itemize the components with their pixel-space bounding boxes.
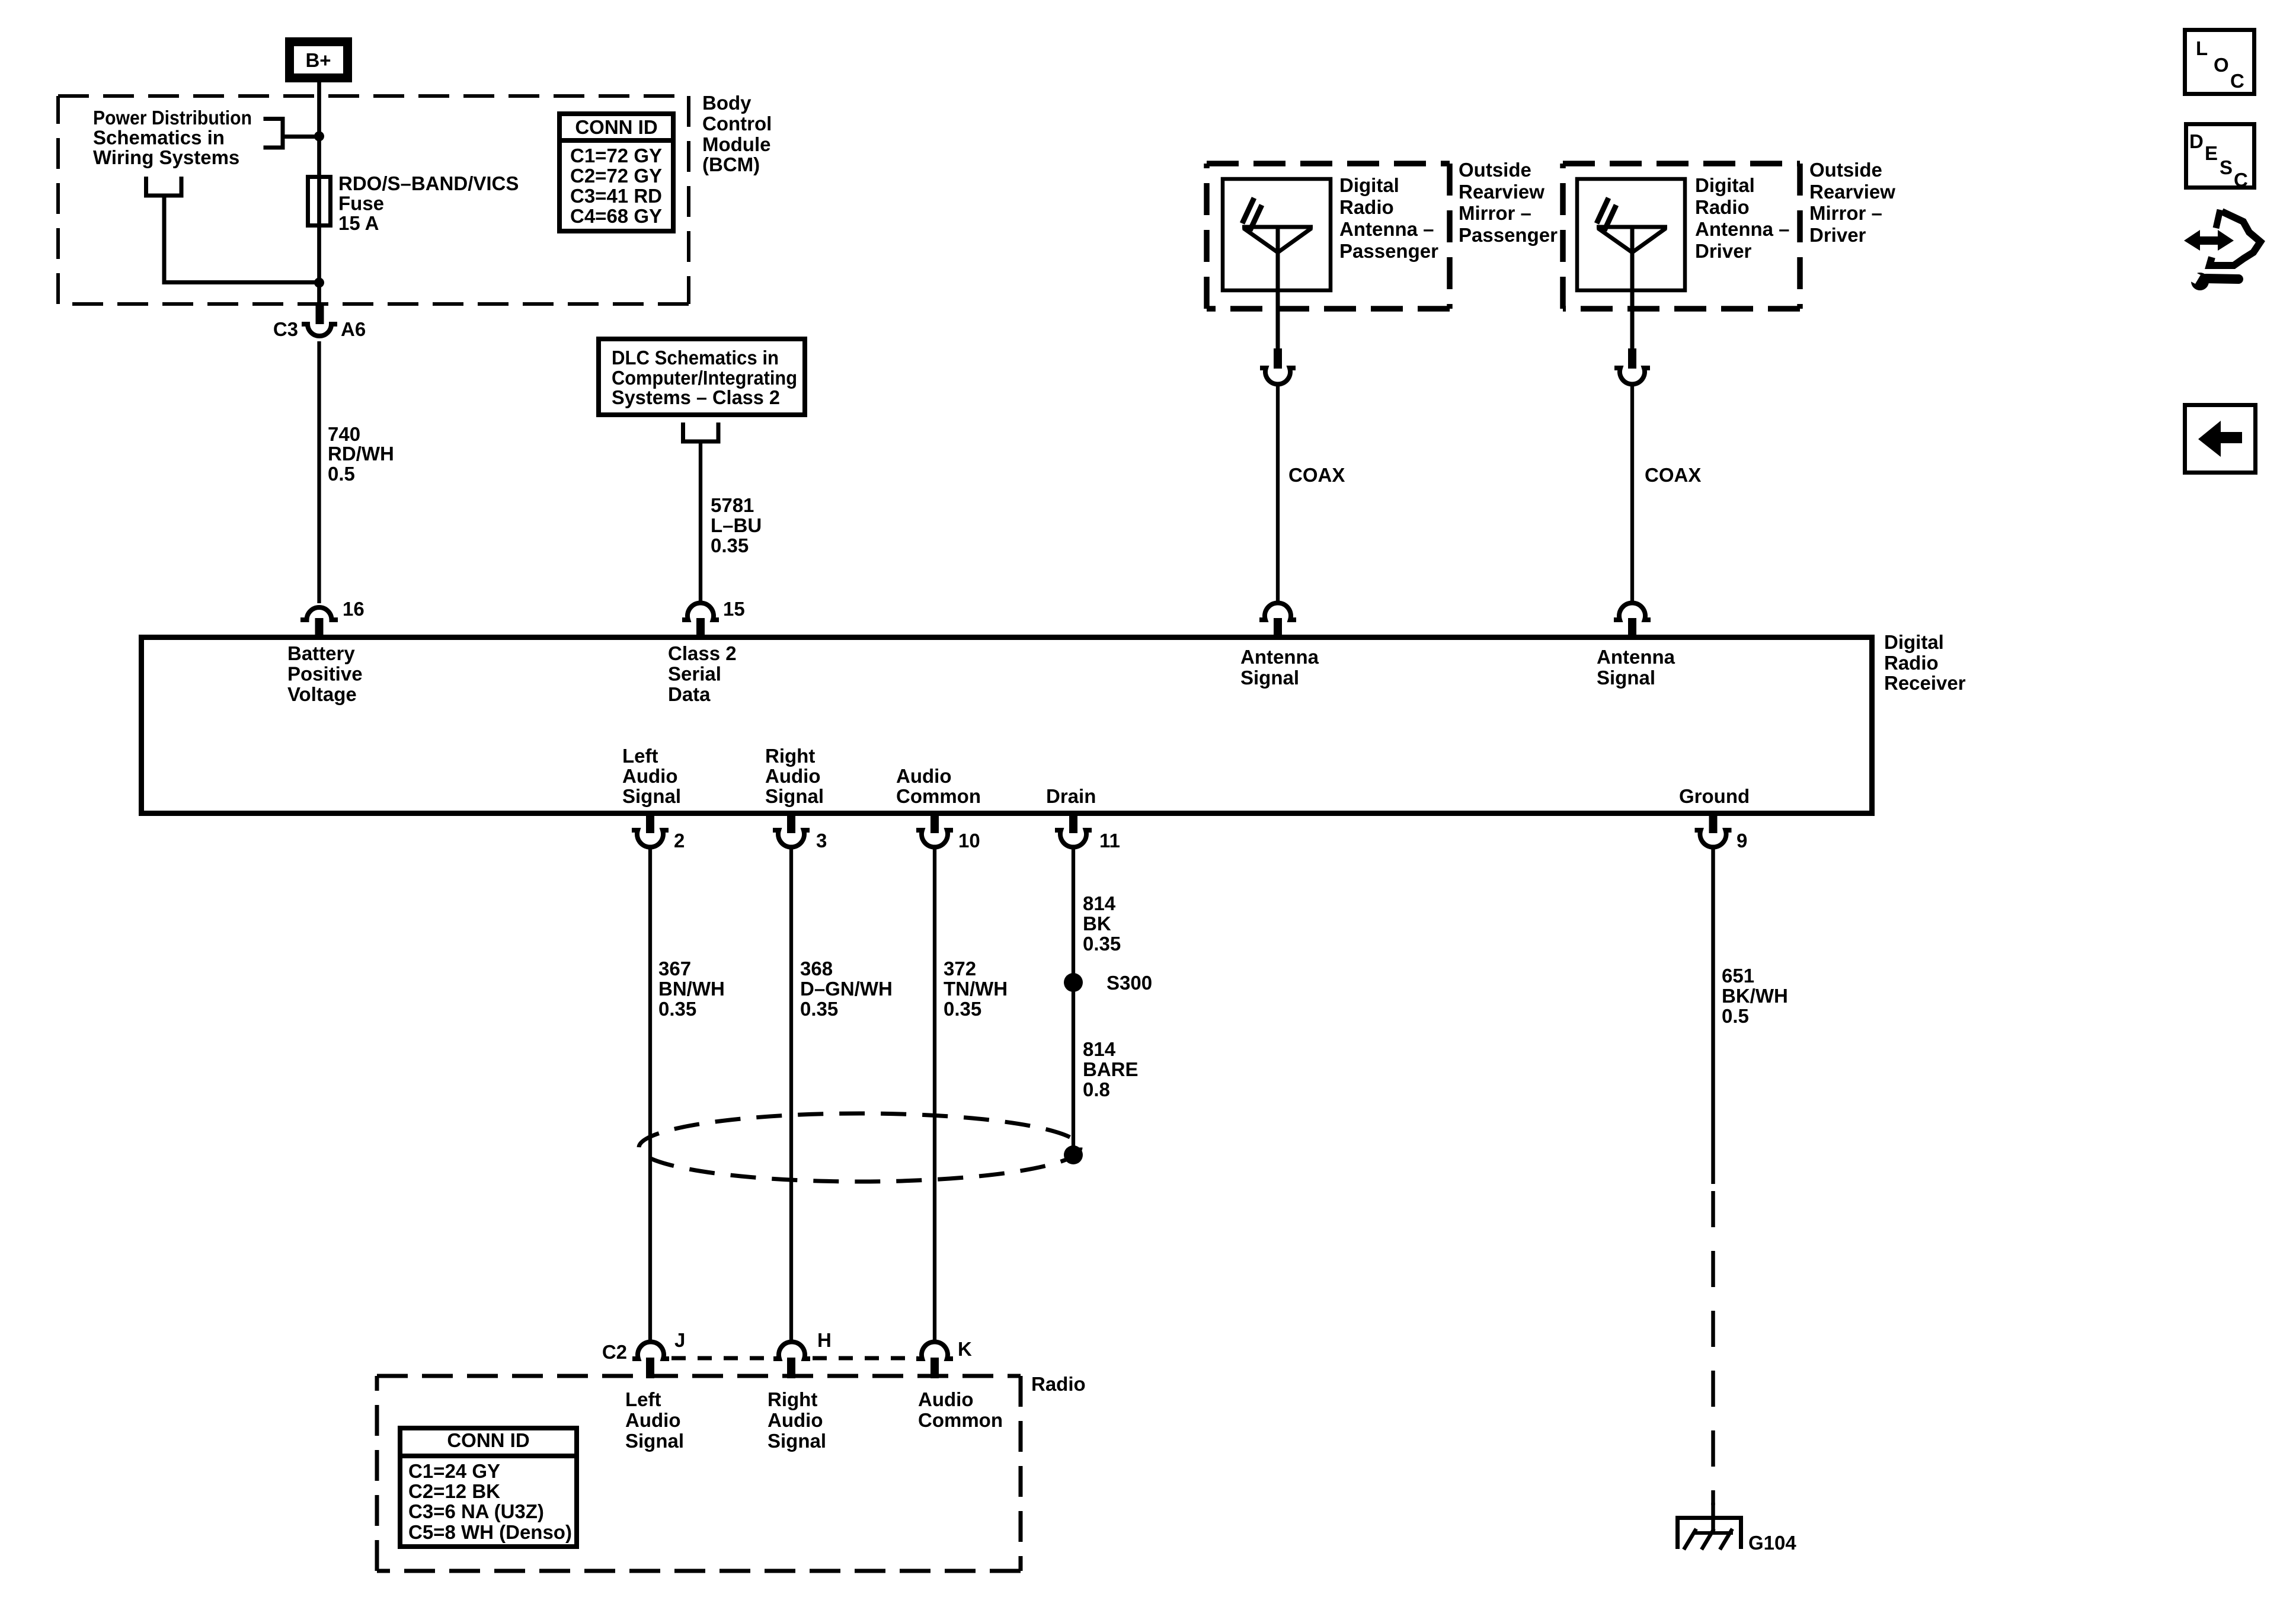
svg-text:Radio: Radio [1031, 1373, 1086, 1395]
svg-text:Left: Left [625, 1388, 661, 1410]
svg-text:Systems – Class 2: Systems – Class 2 [612, 386, 780, 408]
Outside Rearview Mirror - Driver dashed box [1563, 164, 1800, 309]
ground G104 [1678, 1518, 1797, 1554]
svg-text:DLC Schematics in: DLC Schematics in [612, 347, 779, 369]
svg-text:0.35: 0.35 [944, 998, 981, 1020]
label: 368 D-GN/WH 0.35 [800, 958, 893, 1020]
svg-text:D: D [2189, 130, 2204, 152]
svg-text:J: J [674, 1329, 685, 1351]
svg-text:Signal: Signal [765, 785, 824, 807]
svg-text:C2=12 BK: C2=12 BK [408, 1480, 500, 1502]
label: 367 BN/WH 0.35 [658, 958, 725, 1020]
svg-text:15: 15 [723, 598, 745, 620]
pin 10 [916, 813, 980, 852]
svg-text:A6: A6 [341, 318, 366, 340]
svg-text:2: 2 [674, 830, 685, 852]
svg-text:S300: S300 [1107, 972, 1152, 994]
svg-text:0.5: 0.5 [328, 463, 355, 485]
svg-text:651: 651 [1722, 965, 1754, 987]
B+ battery feed symbol [285, 37, 352, 82]
Radio dashed box [377, 1376, 1021, 1571]
label: Class 2 Serial Data [668, 642, 737, 705]
svg-text:Data: Data [668, 683, 711, 705]
svg-text:C: C [2234, 169, 2248, 191]
svg-text:BK: BK [1083, 913, 1111, 934]
svg-text:16: 16 [343, 598, 364, 620]
svg-text:Common: Common [918, 1409, 1003, 1431]
svg-text:S: S [2220, 156, 2233, 178]
label: Left Audio Signal (radio) [625, 1388, 684, 1452]
svg-text:C2=72 GY: C2=72 GY [570, 165, 662, 187]
label: Outside Rearview Mirror - Driver [1809, 159, 1895, 246]
svg-text:Wiring Systems: Wiring Systems [93, 146, 239, 168]
svg-text:BN/WH: BN/WH [658, 978, 725, 1000]
label: Audio Common (receiver) [896, 765, 981, 807]
wire 367 BN/WH (pin 2 to radio J) [648, 847, 652, 1343]
svg-text:Signal: Signal [622, 785, 681, 807]
back arrow icon box [2185, 405, 2256, 473]
svg-text:Mirror –: Mirror – [1809, 202, 1882, 224]
svg-text:Battery: Battery [287, 642, 355, 664]
svg-text:Antenna –: Antenna – [1695, 218, 1790, 240]
svg-text:740: 740 [328, 423, 360, 445]
label: fuse [338, 172, 519, 234]
svg-text:C1=72 GY: C1=72 GY [570, 145, 662, 167]
svg-text:Ground: Ground [1679, 785, 1750, 807]
svg-text:COAX: COAX [1645, 464, 1701, 486]
svg-text:Fuse: Fuse [338, 193, 384, 215]
svg-text:COAX: COAX [1288, 464, 1345, 486]
bracket: power distribution tap [264, 117, 285, 150]
svg-text:Serial: Serial [668, 663, 721, 685]
svg-text:Control: Control [702, 113, 772, 135]
svg-text:Receiver: Receiver [1884, 672, 1966, 694]
svg-text:K: K [958, 1338, 972, 1360]
svg-text:C3=41 RD: C3=41 RD [570, 185, 662, 207]
svg-text:C3=6 NA (U3Z): C3=6 NA (U3Z) [408, 1500, 544, 1522]
svg-text:Audio: Audio [896, 765, 951, 787]
label: Left Audio Signal (receiver) [622, 745, 681, 807]
svg-text:Antenna: Antenna [1597, 646, 1675, 668]
antenna signal pin (driver) [1614, 603, 1651, 636]
svg-text:Right: Right [765, 745, 815, 767]
svg-text:Driver: Driver [1695, 240, 1752, 262]
wire: B+ down through fuse to BCM exit [317, 82, 321, 305]
svg-text:RD/WH: RD/WH [328, 443, 394, 465]
wire: bracket to B+ feed [283, 135, 319, 139]
radio connector terminal H [773, 1329, 832, 1378]
antenna symbol (driver) [1597, 198, 1667, 351]
DLC reference box [599, 339, 805, 415]
bracket: internal feed U [144, 177, 184, 197]
antenna signal pin (passenger) [1259, 603, 1296, 636]
svg-text:368: 368 [800, 958, 833, 980]
svg-text:Positive: Positive [287, 663, 363, 685]
svg-text:C1=24 GY: C1=24 GY [408, 1460, 500, 1482]
svg-text:Audio: Audio [765, 765, 820, 787]
label: Digital Radio Receiver [1884, 631, 1966, 694]
svg-text:E: E [2205, 142, 2218, 164]
antenna symbol (passenger) [1242, 198, 1313, 351]
svg-text:Module: Module [702, 133, 770, 155]
svg-text:C3: C3 [273, 318, 298, 340]
svg-text:C2: C2 [602, 1341, 627, 1363]
Digital Radio Antenna - Passenger inner box [1223, 179, 1331, 290]
svg-text:BK/WH: BK/WH [1722, 985, 1788, 1007]
wire: U bracket stem to junction [164, 197, 319, 283]
svg-text:Digital: Digital [1695, 174, 1755, 196]
svg-text:Outside: Outside [1809, 159, 1882, 181]
svg-text:Drain: Drain [1046, 785, 1096, 807]
svg-text:Signal: Signal [1597, 667, 1655, 689]
fuse RDO/S-BAND/VICS 15 A [308, 177, 331, 226]
label: 740 RD/WH 0.5 [328, 423, 394, 485]
svg-text:B+: B+ [305, 49, 331, 71]
pin 15 [682, 598, 745, 636]
splice S300 [1064, 972, 1152, 994]
junction dot: drain to shield [1064, 1145, 1083, 1164]
svg-text:Driver: Driver [1809, 224, 1866, 246]
junction dot (internal feed) [314, 278, 324, 288]
pin 9 [1695, 813, 1748, 852]
svg-text:G104: G104 [1748, 1532, 1796, 1554]
svg-text:L–BU: L–BU [711, 514, 762, 536]
svg-text:Passenger: Passenger [1339, 240, 1438, 262]
svg-text:Left: Left [622, 745, 658, 767]
svg-text:814: 814 [1083, 1038, 1116, 1060]
svg-text:Radio: Radio [1695, 196, 1750, 218]
svg-text:Signal: Signal [625, 1430, 684, 1452]
svg-text:11: 11 [1099, 830, 1120, 852]
svg-text:H: H [817, 1329, 832, 1351]
label: Antenna Signal (passenger) [1240, 646, 1319, 689]
svg-text:Rearview: Rearview [1459, 181, 1544, 203]
bracket: DLC tap [681, 422, 721, 443]
label: Audio Common (radio) [918, 1388, 1003, 1431]
svg-text:Audio: Audio [625, 1409, 680, 1431]
wire 651 BK/WH (pin 9 ground, solid) [1711, 847, 1715, 1184]
svg-text:C: C [2230, 70, 2244, 92]
svg-text:Voltage: Voltage [287, 683, 357, 705]
radio connector terminal K [916, 1338, 972, 1378]
label: Digital Radio Antenna - Passenger [1339, 174, 1438, 262]
svg-text:367: 367 [658, 958, 691, 980]
svg-text:Common: Common [896, 785, 981, 807]
BCM dashed box [58, 96, 689, 304]
radio connector C2 terminal J [602, 1329, 686, 1378]
svg-text:TN/WH: TN/WH [944, 978, 1008, 1000]
dashed connector link H-K [813, 1356, 917, 1361]
shield ellipse [639, 1113, 1080, 1182]
svg-text:(BCM): (BCM) [702, 153, 760, 175]
svg-text:Digital: Digital [1884, 631, 1944, 653]
svg-text:0.35: 0.35 [1083, 933, 1121, 955]
svg-text:Class 2: Class 2 [668, 642, 737, 664]
pin 11 [1055, 813, 1120, 852]
wire 814 BK drain (pin 11 to shield) [1072, 847, 1075, 1155]
svg-text:0.35: 0.35 [711, 534, 749, 556]
Outside Rearview Mirror - Passenger dashed box [1207, 164, 1450, 309]
svg-text:O: O [2214, 54, 2229, 76]
label: 651 BK/WH 0.5 [1722, 965, 1788, 1027]
label: Right Audio Signal (receiver) [765, 745, 824, 807]
svg-text:0.35: 0.35 [658, 998, 696, 1020]
coax wire (passenger) [1276, 385, 1280, 603]
Digital Radio Antenna - Driver inner box [1577, 179, 1685, 290]
svg-text:Passenger: Passenger [1459, 224, 1558, 246]
svg-text:Digital: Digital [1339, 174, 1399, 196]
pin 3 [773, 813, 827, 852]
svg-text:Antenna: Antenna [1240, 646, 1319, 668]
label: 814 BK 0.35 [1083, 892, 1121, 955]
svg-text:15 A: 15 A [338, 212, 379, 234]
wire 740 RD/WH 0.5 [317, 341, 321, 603]
svg-text:Right: Right [768, 1388, 817, 1410]
dashed connector link J-H [671, 1356, 776, 1361]
label: Battery Positive Voltage [287, 642, 363, 705]
svg-text:C4=68 GY: C4=68 GY [570, 205, 662, 227]
svg-text:Radio: Radio [1884, 652, 1939, 674]
svg-text:Audio: Audio [918, 1388, 973, 1410]
svg-text:372: 372 [944, 958, 976, 980]
DESC icon box [2186, 124, 2255, 191]
svg-text:0.5: 0.5 [1722, 1005, 1749, 1027]
svg-text:CONN ID: CONN ID [575, 116, 657, 138]
svg-text:Computer/Integrating: Computer/Integrating [612, 367, 797, 389]
CONN ID table (radio) [398, 1428, 579, 1547]
Digital Radio Receiver box [142, 638, 1872, 814]
svg-text:Antenna –: Antenna – [1339, 218, 1434, 240]
pin 16 [300, 598, 364, 636]
note: Power Distribution Schematics in Wiring Systems [93, 107, 252, 168]
svg-text:Outside: Outside [1459, 159, 1531, 181]
svg-text:Schematics in: Schematics in [93, 127, 225, 149]
label: 372 TN/WH 0.35 [944, 958, 1008, 1020]
CONN ID table (BCM) [557, 114, 676, 231]
label: Body Control Module (BCM) [702, 92, 772, 175]
label: Antenna Signal (driver) [1597, 646, 1675, 689]
connector C3 pin A6 [273, 304, 366, 340]
inline coax connector (passenger) [1260, 348, 1296, 384]
LOC icon box [2185, 30, 2255, 94]
junction dot (B+ tap) [314, 132, 324, 142]
label: 814 BARE 0.8 [1083, 1038, 1139, 1100]
svg-text:D–GN/WH: D–GN/WH [800, 978, 893, 1000]
svg-text:3: 3 [816, 830, 827, 852]
svg-text:L: L [2196, 37, 2208, 59]
wire 5781 L-BU 0.35 [699, 443, 702, 603]
label: Digital Radio Antenna - Driver [1695, 174, 1790, 262]
pin 2 [632, 813, 685, 852]
svg-text:Body: Body [702, 92, 752, 114]
svg-text:Power Distribution: Power Distribution [93, 107, 252, 129]
svg-text:10: 10 [958, 830, 980, 852]
svg-text:Rearview: Rearview [1809, 181, 1895, 203]
svg-text:Mirror –: Mirror – [1459, 202, 1531, 224]
wire 368 D-GN/WH (pin 3 to radio H) [789, 847, 793, 1343]
label: Right Audio Signal (radio) [768, 1388, 826, 1452]
svg-text:Audio: Audio [768, 1409, 823, 1431]
label: 5781 L-BU 0.35 [711, 494, 762, 556]
svg-text:9: 9 [1737, 830, 1747, 852]
svg-text:Radio: Radio [1339, 196, 1394, 218]
svg-text:Signal: Signal [1240, 667, 1299, 689]
wire 372 TN/WH (pin 10 to radio K) [933, 847, 936, 1343]
svg-text:814: 814 [1083, 892, 1116, 914]
label: Outside Rearview Mirror - Passenger [1459, 159, 1558, 246]
coax wire (driver) [1630, 385, 1634, 603]
wire: ground run (dashed) [1711, 1191, 1715, 1505]
service information icon (arrow, outline, wrench) [2184, 210, 2260, 290]
svg-text:5781: 5781 [711, 494, 754, 516]
svg-text:Signal: Signal [768, 1430, 826, 1452]
svg-text:0.35: 0.35 [800, 998, 838, 1020]
inline coax connector (driver) [1614, 348, 1650, 384]
svg-text:C5=8 WH (Denso): C5=8 WH (Denso) [408, 1521, 572, 1543]
svg-text:CONN ID: CONN ID [447, 1429, 529, 1451]
svg-text:0.8: 0.8 [1083, 1078, 1110, 1100]
svg-text:Audio: Audio [622, 765, 677, 787]
svg-text:BARE: BARE [1083, 1058, 1139, 1080]
svg-text:RDO/S–BAND/VICS: RDO/S–BAND/VICS [338, 172, 519, 194]
